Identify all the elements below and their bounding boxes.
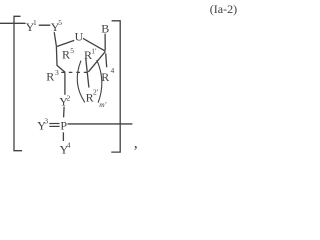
svg-text:5: 5 <box>70 46 74 55</box>
bond Y5-C4' <box>54 32 56 46</box>
svg-text:3: 3 <box>44 117 48 126</box>
svg-text:B: B <box>101 22 109 36</box>
double bond Y3=P <box>49 123 59 125</box>
svg-text:4: 4 <box>111 66 115 75</box>
bond R2'-ring <box>86 59 89 88</box>
bond B-C1' <box>104 34 106 51</box>
svg-text:,: , <box>134 134 138 151</box>
svg-text:1: 1 <box>33 18 37 27</box>
wire backbone bond entering through left bracket <box>0 22 26 24</box>
svg-text:R: R <box>101 70 109 84</box>
svg-text:R: R <box>46 70 54 84</box>
right bracket <box>111 21 120 152</box>
svg-text:2: 2 <box>67 94 71 103</box>
bond C4'-C3' ring left side <box>56 47 65 73</box>
svg-text:4: 4 <box>67 141 71 150</box>
svg-text:U: U <box>75 30 84 44</box>
dashed bond R3-C3'-C2' <box>61 71 88 73</box>
left parenthesis of (R2')m' <box>77 61 85 103</box>
bond Y2-P <box>63 107 66 118</box>
svg-text:5: 5 <box>58 18 62 27</box>
bond U-C1' (ring) <box>83 38 105 51</box>
bond C3'-Y2 <box>64 72 66 94</box>
bond U-C4' (ring) <box>56 40 74 46</box>
bond P-right continuing through bracket <box>68 123 133 125</box>
bond C1'-R4 <box>106 53 107 67</box>
right parenthesis of (R2')m' <box>97 60 102 103</box>
left bracket <box>14 16 22 150</box>
bond P-Y4 <box>62 132 64 141</box>
svg-text:P: P <box>60 118 67 132</box>
svg-text:3: 3 <box>55 68 59 77</box>
svg-text:1′: 1′ <box>91 46 97 55</box>
bond Y1-Y5 <box>39 24 51 26</box>
svg-text:2′: 2′ <box>93 88 99 97</box>
svg-text:m′: m′ <box>99 100 106 109</box>
svg-text:(Ia-2): (Ia-2) <box>210 2 237 16</box>
svg-text:R: R <box>62 47 70 61</box>
bond C2'-C1' (ring) <box>88 51 105 72</box>
